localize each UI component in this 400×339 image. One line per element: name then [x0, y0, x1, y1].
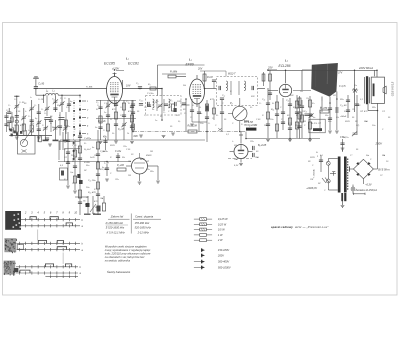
svg-text:6,3V: 6,3V	[234, 165, 239, 167]
svg-text:C₥: C₥	[102, 150, 105, 153]
svg-text:R₃ 2,2k: R₃ 2,2k	[98, 121, 106, 123]
svg-text:C₁₅: C₁₅	[262, 99, 265, 101]
svg-text:0,1: 0,1	[320, 155, 323, 157]
svg-text:Rₕ: Rₕ	[250, 107, 252, 109]
svg-text:Rₓ: Rₓ	[192, 105, 194, 107]
svg-text:Cₑ: Cₑ	[41, 109, 44, 111]
svg-text:R₥: R₥	[366, 154, 369, 157]
svg-text:Rₚ: Rₚ	[64, 149, 66, 151]
svg-text:Rₐ: Rₐ	[96, 109, 98, 111]
svg-text:Częst. drgania: Częst. drgania	[135, 215, 153, 219]
svg-text:Cₕ: Cₕ	[28, 116, 30, 118]
svg-text:2,2n: 2,2n	[152, 102, 158, 104]
svg-text:Rₙ: Rₙ	[344, 111, 346, 113]
svg-text:aparat-radiowy: aparat-radiowy	[271, 225, 293, 229]
svg-text:Cₐ: Cₐ	[97, 105, 100, 107]
svg-text:C₅: C₅	[60, 98, 63, 100]
svg-text:70 Og 220M: 70 Og 220M	[244, 124, 257, 127]
svg-text:C₉: C₉	[170, 100, 173, 102]
svg-text:EF89: EF89	[186, 63, 194, 67]
svg-text:Cₚ: Cₚ	[144, 115, 146, 117]
svg-text:1 W: 1 W	[218, 233, 223, 237]
svg-text:350V: 350V	[110, 145, 115, 147]
svg-text:220V: 220V	[309, 157, 315, 159]
svg-text:C₁₀ 10n: C₁₀ 10n	[88, 180, 96, 182]
svg-text:ECC81: ECC81	[128, 62, 139, 66]
svg-text:220V 60mA: 220V 60mA	[358, 66, 373, 70]
svg-text:~6,3V: ~6,3V	[365, 184, 372, 187]
svg-text:C 470p: C 470p	[84, 137, 92, 140]
svg-text:155-360 kHz: 155-360 kHz	[135, 221, 150, 225]
svg-text:L₁: L₁	[126, 57, 129, 61]
svg-text:EM80: EM80	[146, 155, 152, 157]
svg-text:C₀: C₀	[96, 102, 99, 104]
svg-text:Lₖ: Lₖ	[7, 126, 9, 128]
svg-text:P₂: P₂	[230, 102, 233, 105]
svg-text:20V: 20V	[197, 68, 203, 71]
svg-text:Cₐ: Cₐ	[302, 111, 305, 113]
svg-text:L₄: L₄	[232, 140, 234, 143]
svg-text:C₆: C₆	[136, 83, 139, 85]
svg-text:d 20V: d 20V	[112, 67, 119, 71]
svg-text:C₁₂: C₁₂	[222, 95, 225, 97]
svg-text:Rₐ 1%: Rₐ 1%	[311, 123, 317, 125]
svg-text:Rₑ: Rₑ	[110, 119, 113, 121]
svg-text:520-1650 kHz: 520-1650 kHz	[135, 226, 152, 230]
svg-text:T 160mA: T 160mA	[313, 169, 316, 178]
svg-text:500-1000V: 500-1000V	[218, 265, 231, 269]
svg-text:K 5,9-12,1 MHz: K 5,9-12,1 MHz	[107, 231, 126, 235]
svg-text:R₁₆: R₁₆	[271, 109, 274, 111]
svg-text:Wszystkie cewki strojone wzglę: Wszystkie cewki strojone względem	[105, 244, 148, 248]
svg-text:500k: 500k	[244, 121, 250, 123]
svg-text:Rₙ: Rₙ	[168, 107, 171, 109]
svg-text:1M: 1M	[128, 175, 131, 177]
svg-text:C 5u: C 5u	[340, 137, 346, 139]
svg-text:masy; wyskalowane z regulacją: masy; wyskalowane z regulacją napięc	[105, 248, 151, 252]
svg-text:0,25 W: 0,25 W	[218, 222, 227, 226]
svg-text:0,1: 0,1	[360, 99, 363, 101]
svg-text:0,5 W: 0,5 W	[218, 228, 225, 232]
svg-text:R 1M: R 1M	[207, 77, 213, 79]
svg-text:L₆: L₆	[28, 130, 30, 132]
svg-text:8012-T: 8012-T	[228, 73, 236, 76]
svg-text:Cₐ: Cₐ	[14, 99, 16, 101]
svg-text:Rₐ: Rₐ	[44, 119, 47, 121]
svg-text:Cₖ: Cₖ	[44, 113, 46, 115]
svg-text:BYS 58-m: BYS 58-m	[378, 169, 389, 172]
svg-text:R₢: R₢	[333, 95, 337, 97]
svg-text:Cₚ: Cₚ	[163, 112, 166, 114]
svg-text:25V: 25V	[267, 66, 273, 70]
svg-text:L₅: L₅	[30, 97, 32, 99]
svg-text:C₥: C₥	[70, 171, 74, 174]
svg-text:1M: 1M	[150, 151, 153, 153]
svg-text:B₀ 2x25: B₀ 2x25	[258, 145, 267, 147]
svg-text:L₇: L₇	[53, 90, 55, 93]
svg-text:G₂ 2x7: G₂ 2x7	[84, 149, 91, 151]
svg-text:C 4,7n: C 4,7n	[339, 85, 346, 88]
svg-text:C₃ 47: C₃ 47	[118, 128, 124, 131]
svg-text:D 150-300 kHz: D 150-300 kHz	[106, 221, 124, 225]
svg-text:0,125 W: 0,125 W	[218, 217, 228, 221]
svg-text:C 10u: C 10u	[115, 151, 122, 153]
svg-text:2x25: 2x25	[89, 157, 95, 159]
svg-text:R₁₇ 6,8k: R₁₇ 6,8k	[293, 107, 302, 109]
svg-text:na obwodach i sie; fabrycznie: na obwodach i sie; fabrycznie bez	[105, 255, 145, 259]
svg-text:18V: 18V	[126, 85, 131, 88]
svg-text:Rₛ: Rₛ	[84, 143, 86, 145]
svg-text:Sₐ: Sₐ	[316, 152, 318, 154]
svg-text:C₯: C₯	[356, 124, 359, 127]
svg-text:P₂: P₂	[241, 124, 243, 126]
svg-text:Cₙ: Cₙ	[8, 105, 11, 107]
svg-text:Cₖ: Cₖ	[120, 107, 123, 109]
svg-text:Cₒ: Cₒ	[36, 126, 39, 128]
svg-text:Rₚ: Rₚ	[178, 121, 181, 123]
svg-text:C 2,2n: C 2,2n	[147, 93, 154, 95]
svg-text:Lₔ: Lₔ	[10, 118, 12, 120]
svg-text:R₄: R₄	[148, 83, 151, 86]
svg-text:wzór — „Przenośn-Lux”: wzór — „Przenośn-Lux”	[295, 225, 329, 229]
svg-text:Cₛ: Cₛ	[184, 113, 186, 115]
svg-text:230V: 230V	[375, 142, 384, 146]
svg-text:C₂₅ 50: C₂₅ 50	[340, 105, 347, 107]
svg-text:P₁ 88k: P₁ 88k	[170, 71, 178, 74]
svg-text:Cₐ: Cₐ	[6, 110, 9, 112]
svg-text:30V: 30V	[251, 96, 255, 98]
svg-text:150-180V: 150-180V	[218, 248, 230, 252]
svg-text:Rₒ: Rₒ	[112, 133, 115, 135]
svg-text:C₄: C₄	[52, 97, 55, 100]
svg-text:2 W: 2 W	[217, 238, 223, 242]
svg-text:Rₒ: Rₒ	[160, 116, 162, 118]
svg-text:C₁₇: C₁₇	[304, 111, 307, 113]
svg-text:0,1: 0,1	[226, 134, 229, 136]
svg-text:C₁ 80: C₁ 80	[38, 83, 44, 86]
svg-text:L₅: L₅	[46, 90, 48, 93]
svg-text:Żarówka 12-15/0,1A: Żarówka 12-15/0,1A	[355, 189, 378, 192]
svg-text:R₂₀ 470: R₂₀ 470	[88, 191, 96, 194]
svg-text:C₦: C₦	[100, 198, 104, 200]
svg-text:C₁₀₀: C₁₀₀	[139, 100, 143, 102]
svg-text:ECL286: ECL286	[279, 64, 291, 68]
svg-text:C₨: C₨	[115, 179, 120, 181]
svg-text:P₃ 220: P₃ 220	[117, 165, 125, 167]
svg-text:60V: 60V	[134, 135, 139, 138]
svg-text:ECC85: ECC85	[104, 62, 115, 66]
svg-text:C₪: C₪	[310, 178, 313, 181]
svg-text:na wejściu odbiornika: na wejściu odbiornika	[105, 259, 131, 263]
svg-text:trafo; 220/110 przy wliczonym: trafo; 220/110 przy wliczonym odbiorze	[105, 251, 151, 255]
svg-text:Cₓ: Cₓ	[64, 98, 67, 100]
svg-text:~220/6,3V: ~220/6,3V	[306, 187, 317, 190]
svg-text:Rₑ: Rₑ	[128, 103, 130, 105]
svg-text:37V: 37V	[338, 72, 343, 75]
svg-text:R 22k: R 22k	[84, 162, 91, 164]
svg-text:Pₐ 88k: Pₐ 88k	[86, 87, 93, 89]
svg-text:C₁₆: C₁₆	[286, 100, 289, 102]
svg-text:Cₙ: Cₙ	[120, 115, 122, 117]
svg-text:2-12 MHz: 2-12 MHz	[137, 231, 150, 235]
svg-text:1M: 1M	[303, 121, 306, 123]
svg-text:200V: 200V	[217, 253, 224, 257]
svg-text:300-400V: 300-400V	[218, 260, 230, 264]
svg-text:L₄: L₄	[25, 110, 27, 113]
svg-text:Cₐ: Cₐ	[259, 103, 262, 105]
svg-text:+50uF: +50uF	[340, 116, 347, 118]
svg-text:Rₔ: Rₔ	[216, 115, 218, 117]
svg-text:Cₐ: Cₐ	[34, 105, 37, 107]
svg-text:GDS 8-5/1,5: GDS 8-5/1,5	[391, 81, 395, 96]
svg-text:350V: 350V	[345, 121, 350, 123]
svg-text:Rₖ: Rₖ	[272, 103, 274, 105]
svg-text:Zakres fal: Zakres fal	[110, 215, 124, 219]
